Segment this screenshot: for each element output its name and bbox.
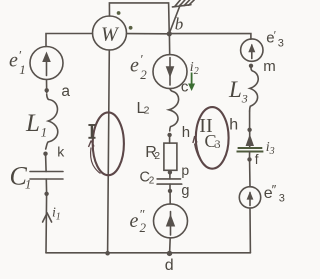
wire W right to node b [127,33,168,35]
wattmeter polarity dot 2 [129,26,133,30]
node b junction dot [167,31,172,36]
wire C1 down to bottom rail [45,179,48,253]
inductor L3 [250,68,259,111]
svg-text:p: p [181,162,189,178]
contour I label [88,125,95,138]
node h (middle) dot [167,133,171,137]
inductor L2 [169,89,179,131]
bottom rail wire [46,252,250,254]
svg-text:g: g [181,183,189,199]
node f dot [247,157,251,161]
wire e'1 to node a [46,80,48,94]
svg-text:e″2: e″2 [130,207,147,236]
source e''2 [154,204,188,238]
wire p to C2 [169,174,171,179]
wire W top voltage-coil loop to node b [109,3,169,32]
wire e''2 to bottom rail node d [169,238,172,253]
wire e''3 down to bottom rail [249,208,251,253]
current i2 arrow (green, down) [188,73,195,92]
wire node b to right branch top corner [172,34,251,40]
svg-text:W: W [101,24,120,46]
node d junction dot [167,251,172,256]
source e''3 [239,187,260,208]
inductor L1 [46,95,58,150]
node a dot [45,88,49,92]
wire f to e''3 [249,161,251,186]
source e'1 [30,47,63,80]
svg-text:k: k [57,144,65,160]
switch blade at node b [170,5,181,33]
wire W bottom down to bottom rail [108,50,110,253]
svg-text:h: h [182,124,190,141]
svg-text:a: a [61,83,70,100]
wire k to C1 [45,156,48,172]
wire R2 to node p [169,170,171,172]
wattmeter U W [93,16,127,50]
svg-text:h: h [229,117,238,134]
capacitor C1 [30,172,63,180]
source e'3 [241,39,263,61]
node below C1 dot [44,192,48,196]
switch fixed support with hatching [172,0,194,7]
node g dot [168,189,172,193]
junction dot W-branch on rail [105,251,110,256]
capacitor C3 plates [237,148,264,152]
svg-text:d: d [165,257,174,274]
svg-text:f: f [255,152,259,167]
wire C3 to node f [249,152,251,160]
contour I ellipse [89,112,124,175]
contour II ellipse [193,107,229,169]
node k dot [43,152,47,156]
wattmeter polarity dot 1 [117,11,121,15]
svg-text:b: b [175,14,184,33]
wire top-left horizontal from node above e'1 to W [46,34,93,47]
node p dot [168,170,172,174]
resistor R2 [164,143,177,170]
node h (right) dot [247,128,251,132]
wire g to e''2 [169,193,171,204]
middle branch: wire b to e'2 [168,34,170,55]
wire C2 to node g [169,184,171,189]
capacitor C2 [157,179,182,184]
wire L3 to node h (right) [249,111,251,132]
svg-text:m: m [263,58,276,75]
current i3 arrow on wire [246,132,254,148]
source e'2 [153,55,187,89]
svg-text:c: c [181,79,189,96]
node m dot [249,64,253,68]
current arrow i1 [43,213,52,222]
wire h to R2 [169,137,171,143]
